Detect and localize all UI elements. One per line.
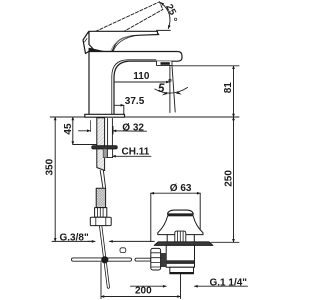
svg-text:Ø 63: Ø 63 (170, 183, 192, 194)
svg-text:G.3/8": G.3/8" (60, 232, 89, 243)
svg-text:45: 45 (63, 123, 74, 135)
svg-text:250: 250 (223, 170, 234, 187)
svg-text:25: 25 (163, 3, 178, 18)
svg-text:G.1 1/4": G.1 1/4" (210, 277, 248, 288)
svg-text:CH.11: CH.11 (122, 147, 150, 158)
svg-text:Ø 32: Ø 32 (122, 122, 144, 133)
svg-text:81: 81 (223, 82, 234, 94)
svg-text:5: 5 (158, 83, 165, 95)
svg-text:37.5: 37.5 (125, 96, 145, 107)
svg-text:200: 200 (135, 285, 152, 296)
svg-text:110: 110 (133, 71, 150, 82)
svg-text:350: 350 (44, 158, 55, 175)
